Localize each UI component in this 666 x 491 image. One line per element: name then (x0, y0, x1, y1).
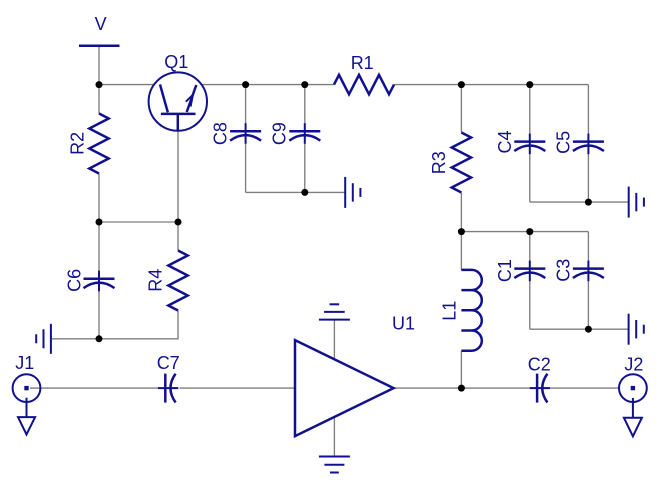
ground above amplifier (flipped) (319, 304, 350, 319)
svg-text:J2: J2 (624, 354, 643, 374)
wire: C1 top drop (529, 232, 531, 262)
capacitor C7 (157, 353, 180, 403)
wire: C8 top drop (245, 85, 247, 124)
wire: C6 top lead (98, 222, 100, 271)
wire: C1/C3 ground rail (530, 328, 629, 330)
capacitor C9 (270, 122, 321, 145)
wire: C9 top drop (304, 85, 306, 124)
wire: C4 bottom lead (529, 154, 531, 202)
wire: C3 bottom lead (587, 281, 589, 329)
wire: C5 bottom lead (587, 154, 589, 202)
node: R2/C6 bias junction (96, 219, 103, 226)
power supply V (79, 14, 120, 46)
connector J2 (619, 354, 647, 436)
wire: L1 bottom lead to output node (460, 351, 462, 388)
ground for C4/C5 rail (629, 187, 644, 218)
wire: C3 top drop (587, 232, 589, 262)
wire: J1 to C7 (30, 387, 158, 389)
node: C9 ground rail junction (301, 189, 308, 196)
svg-text:C7: C7 (157, 353, 180, 373)
capacitor C3 (553, 259, 604, 282)
inductor L1 (440, 270, 482, 351)
ground for C8/C9 rail (345, 177, 360, 208)
wire: C4/C5 ground rail (530, 201, 629, 203)
svg-text:C2: C2 (528, 354, 551, 374)
wire: C1 bottom lead (529, 281, 531, 329)
transistor Q1 (149, 52, 207, 131)
wire: amplifier top ground stem (333, 320, 335, 360)
resistor R3 (429, 133, 471, 193)
node: C8 top junction (242, 81, 249, 88)
capacitor C4 (495, 130, 546, 154)
wire: R2 bottom lead (98, 174, 100, 223)
ground for C1/C3 rail (629, 314, 644, 345)
wire: top rail from node V to R1 (99, 84, 334, 86)
svg-text:R1: R1 (351, 53, 374, 73)
wire: C9 bottom lead (304, 144, 306, 193)
capacitor C8 (210, 122, 261, 145)
node: V rail junction (96, 81, 103, 88)
svg-text:R4: R4 (146, 269, 166, 292)
capacitor C1 (495, 259, 545, 282)
node: C3 ground junction (585, 326, 592, 333)
resistor R1 (334, 53, 394, 94)
wire: C2 to J2 (550, 387, 619, 389)
wire: C4 top drop (529, 85, 531, 135)
svg-text:C5: C5 (553, 131, 573, 154)
svg-text:C3: C3 (553, 259, 573, 282)
svg-text:C8: C8 (210, 122, 230, 145)
svg-text:C4: C4 (495, 130, 515, 153)
wire: R3 top lead (460, 85, 462, 133)
node: C1 top junction (526, 228, 533, 235)
svg-text:R3: R3 (429, 151, 449, 174)
node: C4 top junction (526, 81, 533, 88)
ground for left rail (36, 324, 51, 354)
wire: R2 top lead (98, 85, 100, 114)
wire: bias rail R2 to Q1 base (99, 221, 178, 223)
wire: R4 top lead (177, 222, 179, 251)
wire: left ground rail (52, 338, 99, 340)
svg-text:C9: C9 (270, 122, 290, 145)
wire: V supply stem (98, 47, 100, 85)
connector J1 (13, 353, 41, 435)
node: C9 top junction (301, 81, 308, 88)
wire: top rail from R1 to C5 branch corner (394, 84, 588, 86)
capacitor C2 (528, 354, 551, 402)
node: C5 ground junction (585, 199, 592, 206)
svg-text:R2: R2 (67, 132, 87, 155)
svg-text:V: V (95, 14, 107, 34)
wire: C6 bottom lead (98, 291, 100, 339)
wire: Q1 base lead (177, 131, 179, 222)
wire: amplifier bottom ground stem (333, 417, 335, 456)
resistor R2 (67, 114, 108, 174)
node: R3/L1 mid junction (458, 228, 465, 235)
node: output junction (458, 385, 465, 392)
resistor R4 (146, 251, 188, 311)
wire: C5 top drop (587, 85, 589, 135)
svg-text:Q1: Q1 (164, 52, 188, 72)
op-amp U1 (295, 313, 415, 436)
svg-text:C6: C6 (64, 269, 84, 292)
capacitor C6 (64, 269, 114, 292)
wire: C8 bottom lead (245, 144, 247, 193)
wire: C8/C9 ground rail (246, 191, 345, 193)
svg-text:L1: L1 (440, 301, 460, 321)
wire: C7 to amplifier input (180, 387, 296, 389)
ground below amplifier (319, 457, 350, 473)
wire: R4 bottom lead with corner to left rail (99, 311, 178, 339)
node: R3 top junction (458, 81, 465, 88)
wire: mid rail from R3 to C3 (461, 231, 588, 233)
wire: amplifier output to C2 (394, 387, 531, 389)
svg-text:C1: C1 (495, 259, 515, 282)
node: Q1 base junction (175, 219, 182, 226)
svg-text:U1: U1 (392, 313, 415, 333)
capacitor C5 (553, 131, 604, 154)
node: C6 ground junction (96, 335, 103, 342)
svg-text:J1: J1 (15, 353, 34, 373)
wire: R3 bottom lead to mid rail and L1 top lead (460, 193, 462, 271)
